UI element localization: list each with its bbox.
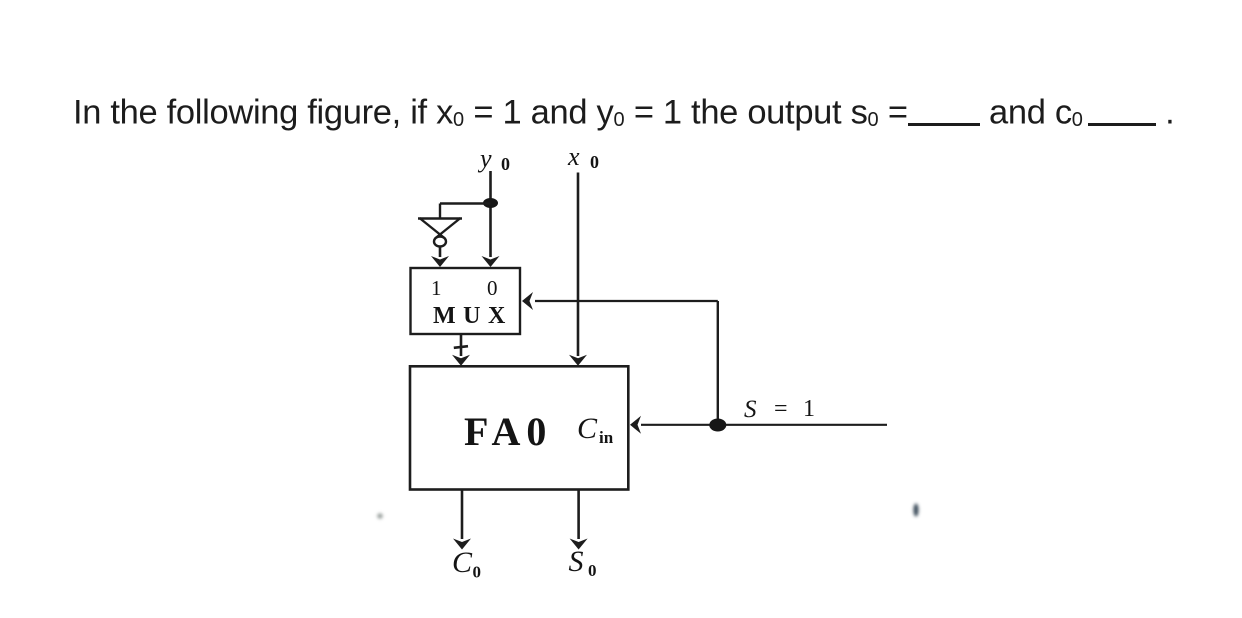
svg-text:C: C <box>577 412 598 445</box>
wire select vertical down to S node <box>717 301 719 425</box>
wire x0 vertical into FA0 <box>577 173 580 357</box>
wire down into inverter <box>439 204 441 219</box>
wire C0 output <box>461 490 464 540</box>
svg-text:1: 1 <box>803 396 815 422</box>
arrowhead MUX output into FA0 <box>452 355 470 366</box>
arrowhead Cin into FA0 <box>630 416 641 434</box>
svg-text:0: 0 <box>588 561 597 580</box>
svg-text:0: 0 <box>501 154 510 174</box>
wire y0 vertical into MUX input 0 <box>489 171 492 257</box>
svg-text:S: S <box>744 396 757 423</box>
svg-text:S: S <box>569 545 584 578</box>
svg-text:MUX: MUX <box>433 303 513 329</box>
inverter bubble <box>434 237 446 247</box>
svg-text:x: x <box>567 142 580 171</box>
wire MUX output to FA0 <box>460 334 463 356</box>
svg-text:FA0: FA0 <box>464 409 552 454</box>
arrowhead x0 into FA0 <box>569 355 587 366</box>
inverter (NOT gate) <box>418 218 462 239</box>
svg-text:C: C <box>452 546 473 579</box>
svg-text:0: 0 <box>487 276 498 300</box>
bus tick on MUX output <box>454 346 468 348</box>
label x0 <box>567 142 599 172</box>
label C0 <box>452 546 481 582</box>
wire inverter to MUX input 1 <box>439 247 442 258</box>
wire MUX select from S line (horizontal) <box>535 300 718 302</box>
label S = 1 <box>744 396 815 423</box>
svg-text:0: 0 <box>473 563 482 582</box>
wire Cin input (horizontal S line) <box>641 424 887 426</box>
arrowhead y0 into MUX <box>482 256 500 267</box>
stray mark (apostrophe) right side <box>913 504 918 517</box>
label S0 <box>569 545 597 580</box>
svg-text:1: 1 <box>431 276 442 300</box>
junction node S on Cin wire <box>709 419 726 432</box>
svg-text:=: = <box>774 396 788 422</box>
arrowhead S0 <box>570 539 588 550</box>
wire S0 output <box>577 490 580 540</box>
svg-text:0: 0 <box>590 152 599 172</box>
wire junction to inverter (horizontal) <box>440 202 491 204</box>
label y0 <box>477 144 510 174</box>
MUX box <box>411 268 521 334</box>
junction node on y0 wire <box>483 198 498 208</box>
arrowhead C0 <box>453 539 471 550</box>
FA0 box <box>410 366 628 489</box>
arrowhead select into MUX right side <box>522 292 533 310</box>
stray mark (speck) left of C0 <box>377 513 383 519</box>
label Cin <box>577 412 614 447</box>
svg-text:in: in <box>599 428 614 447</box>
arrowhead inverter into MUX <box>431 256 449 267</box>
svg-text:y: y <box>477 144 492 173</box>
